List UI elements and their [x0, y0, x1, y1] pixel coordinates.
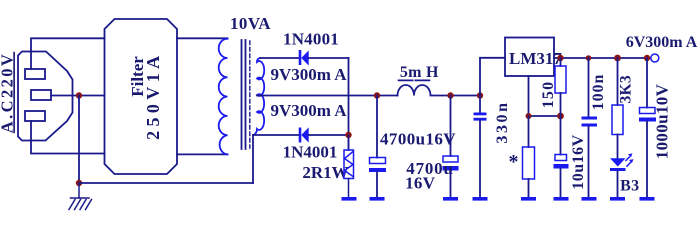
wire filter to primary bottom — [177, 153, 228, 155]
wire bottom rail — [79, 182, 253, 184]
wire LM317 adj — [528, 76, 530, 116]
wire C2 top lead — [450, 96, 452, 157]
svg-text:9V300m A: 9V300m A — [270, 65, 347, 84]
wire plug top pin to filter — [31, 38, 105, 51]
C6 positive plate — [640, 108, 656, 114]
node earth junction at plug — [76, 92, 82, 98]
node ADJ rail right junction — [557, 113, 564, 120]
D2 cathode bar — [299, 128, 302, 143]
wire D1 to join — [309, 57, 349, 59]
transformer T1 core (solid laminations) — [242, 40, 246, 149]
svg-text:330n: 330n — [494, 100, 511, 143]
filter box — [105, 19, 178, 174]
transformer T1 secondary windings — [253, 58, 264, 135]
wire secondary top to D1 — [260, 57, 299, 59]
svg-text:100n: 100n — [590, 74, 607, 111]
wire C2 bottom lead — [450, 171, 452, 198]
C1 positive plate — [370, 158, 386, 164]
C5 plate bottom — [582, 124, 598, 127]
wire C5 bottom lead — [588, 127, 590, 198]
svg-text:3K3: 3K3 — [618, 75, 635, 103]
wire R2 top lead — [560, 58, 562, 66]
C3 plate bottom — [474, 118, 487, 121]
wire plug mid pin to filter — [51, 95, 105, 97]
D2 anode triangle — [301, 127, 308, 142]
wire LED bottom lead — [617, 171, 619, 197]
ground bar C6 — [640, 197, 655, 201]
R2 body — [555, 66, 566, 93]
ground bar C2 — [443, 197, 458, 201]
wire R1 top lead — [348, 135, 350, 150]
LED B3 — [610, 153, 634, 200]
LED emission arrow 1 — [626, 157, 629, 161]
node output rail C5 junction — [586, 55, 592, 61]
node ADJ rail left junction — [526, 113, 532, 119]
R4 body — [612, 105, 623, 135]
capacitor C3 330n — [473, 96, 488, 201]
svg-text:B3: B3 — [620, 178, 639, 195]
wire R3 bottom lead — [528, 179, 530, 197]
wire R4 bottom lead — [617, 135, 619, 159]
svg-text:2R1W: 2R1W — [302, 163, 348, 182]
J1 pin 2 (middle) — [31, 90, 51, 100]
svg-text:A.C220V: A.C220V — [0, 52, 16, 133]
ground bar C5 — [582, 197, 597, 201]
R1 body — [344, 150, 354, 179]
wire earth vertical — [78, 96, 80, 184]
J1 pin 3 (bottom) — [25, 111, 45, 121]
C6 negative plate — [639, 118, 656, 122]
svg-text:9V300m A: 9V300m A — [270, 101, 347, 120]
ground bar R3 — [521, 197, 536, 201]
regulator U1 LM317 — [505, 38, 554, 77]
D1 cathode bar — [299, 50, 302, 65]
node output rail C6 junction — [644, 55, 650, 61]
wire C1 top lead — [376, 96, 378, 158]
wire filter to primary top — [177, 37, 228, 39]
wire C3 bottom lead — [479, 121, 481, 197]
wire R3 top lead — [528, 116, 530, 147]
node C3 top / LM317 input riser junction — [477, 92, 483, 98]
inductor L1 core bars — [399, 79, 430, 81]
wire C4 top lead — [560, 116, 562, 155]
svg-text:16V: 16V — [405, 173, 436, 192]
svg-text:1000u10V: 1000u10V — [653, 83, 672, 159]
J1 pin 1 (top) — [25, 69, 45, 79]
C1 negative plate — [369, 168, 386, 172]
node C1 top junction — [374, 92, 380, 98]
capacitor C6 1000u10V — [639, 58, 656, 201]
svg-text:4700u16V: 4700u16V — [380, 129, 456, 148]
wire rectifier join vertical — [348, 58, 350, 150]
wire J1 pin3 stub — [30, 121, 32, 141]
node D2 output junction — [345, 132, 351, 138]
wire R1 bottom lead — [348, 179, 350, 198]
ground bar C4 — [554, 197, 569, 201]
svg-text:6V300m A: 6V300m A — [626, 34, 698, 51]
resistor R3 (value *) — [521, 116, 536, 201]
capacitor C1 4700u16V — [369, 96, 386, 201]
resistor R4 3K3 — [612, 58, 623, 158]
chassis ground symbol — [69, 183, 92, 210]
node bottom rail junction — [76, 180, 82, 186]
capacitor C4 10u16V — [554, 116, 569, 201]
wire J1 pin1 stub — [30, 51, 32, 69]
R1 body zigzag — [345, 152, 354, 177]
wire output rail — [554, 57, 651, 59]
wire ADJ rail — [529, 115, 561, 117]
D1 anode triangle — [301, 50, 308, 65]
wire C1 bottom lead — [376, 172, 378, 197]
svg-text:250V1A: 250V1A — [143, 52, 163, 140]
capacitor C2 4700u 16V — [443, 96, 459, 201]
LED emission arrow 2 — [627, 163, 630, 167]
wire C5 top lead — [588, 58, 590, 117]
ground bar C1 — [370, 197, 385, 201]
svg-text:1N4001: 1N4001 — [283, 29, 339, 48]
C3 plate top — [474, 113, 487, 116]
C2 positive plate — [443, 156, 458, 162]
J1 body outline — [18, 52, 73, 141]
diode D2 1N4001 — [299, 127, 309, 142]
wire C4 bottom lead — [560, 169, 562, 198]
resistor R1 2R1W — [344, 135, 354, 197]
wire plug bottom pin to filter — [31, 141, 105, 154]
node output rail R2 junction — [557, 55, 563, 61]
wire mid rail from T1 center tap — [257, 95, 398, 97]
C5 plate top — [582, 117, 598, 120]
ground bar R1 2R1W — [342, 197, 357, 201]
wire secondary bottom to D2 — [253, 134, 299, 136]
svg-text:10u16V: 10u16V — [570, 134, 587, 189]
svg-text:5m H: 5m H — [400, 64, 439, 81]
ground bar C3 — [473, 197, 488, 201]
svg-text:10VA: 10VA — [230, 14, 271, 33]
node output rail R4 junction — [614, 55, 621, 62]
diode D1 1N4001 — [299, 50, 309, 66]
svg-text:150: 150 — [540, 81, 557, 109]
node C2 top junction — [447, 92, 453, 98]
svg-text:*: * — [509, 151, 519, 173]
transformer T1 core (dashed shield line) — [249, 41, 251, 148]
output terminal circle — [651, 54, 659, 62]
R3 body — [523, 147, 535, 179]
C2 negative plate — [443, 166, 459, 171]
wire R4 top lead — [617, 58, 619, 105]
wire secondary bottom drop — [252, 135, 254, 183]
LED cathode bar — [610, 168, 626, 171]
wire C6 bottom lead — [646, 122, 648, 198]
svg-text:1N4001: 1N4001 — [283, 143, 338, 162]
ground bar LED — [610, 197, 625, 201]
C4 positive plate — [555, 155, 567, 161]
AC inlet connector J1 — [18, 51, 73, 141]
wire C6 top lead — [646, 58, 648, 108]
wire D2 to join — [309, 134, 349, 136]
wire R2 bottom lead — [560, 93, 562, 116]
LED anode triangle — [610, 158, 626, 166]
resistor R2 150 — [555, 58, 566, 116]
capacitor C5 100n — [582, 58, 598, 201]
C4 negative plate — [554, 164, 569, 169]
wire C3 top lead — [479, 96, 481, 114]
inductor L1 5mH — [398, 85, 481, 95]
wire riser to LM317 — [480, 58, 505, 96]
transformer T1 primary winding — [219, 39, 228, 155]
